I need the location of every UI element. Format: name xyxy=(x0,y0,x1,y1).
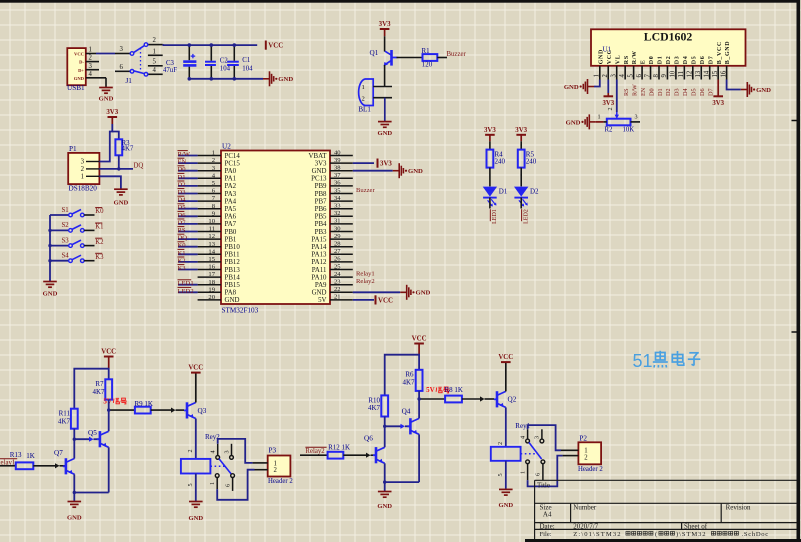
svg-text:35: 35 xyxy=(334,187,341,194)
svg-text:K2: K2 xyxy=(178,257,186,264)
svg-text:Buzzer: Buzzer xyxy=(447,51,467,58)
relay lever Rey2 xyxy=(219,459,231,474)
wire net K3 U2 pin 16 xyxy=(178,269,198,271)
svg-text:3V3: 3V3 xyxy=(712,100,724,107)
svg-text:PB10: PB10 xyxy=(225,244,241,251)
svg-text:K3: K3 xyxy=(95,254,104,261)
resistor R7 xyxy=(105,379,112,399)
svg-text:36: 36 xyxy=(334,180,341,187)
pin 12 LCD1602 D5 xyxy=(692,66,694,80)
wire LCD pin3 to R2 wiper xyxy=(616,80,618,113)
transistor Q1 PNP xyxy=(390,50,393,66)
pin 38 U2 GND xyxy=(330,170,353,172)
svg-text:PA10: PA10 xyxy=(311,274,327,281)
connector P3 xyxy=(268,456,291,477)
power port VCC Q2 xyxy=(501,361,511,363)
power port GND cap rail xyxy=(263,71,274,86)
svg-text:PA3: PA3 xyxy=(225,191,237,198)
svg-text:D7: D7 xyxy=(708,56,714,65)
svg-text:25: 25 xyxy=(334,263,341,270)
contact pin 4 Rey2 xyxy=(217,444,219,455)
pin 26 U2 PA12 xyxy=(330,261,353,263)
resistor R5 xyxy=(518,150,525,168)
pin 33 U2 PB6 xyxy=(330,208,353,210)
pin 1 R2 xyxy=(596,121,604,123)
svg-text:P2: P2 xyxy=(579,435,587,443)
wire net K2 U2 pin 15 xyxy=(178,261,198,263)
switch J1 upper lever xyxy=(130,52,134,56)
ground GND under Rey2 coil xyxy=(189,502,203,508)
svg-text:Buzzer: Buzzer xyxy=(356,187,375,194)
svg-text:3: 3 xyxy=(81,159,85,166)
pin 2 P2 xyxy=(563,455,579,457)
resistor R13 xyxy=(16,462,34,469)
wire R4 to D1 xyxy=(489,168,491,187)
LCD module U1 xyxy=(591,29,746,66)
svg-text:D0: D0 xyxy=(649,56,655,65)
pin 5 U2 PA2 xyxy=(198,185,221,187)
wire net D5 U2 pin 8 xyxy=(178,208,198,210)
svg-text:10: 10 xyxy=(670,70,677,77)
svg-text:PA12: PA12 xyxy=(311,259,327,266)
svg-text:D7: D7 xyxy=(178,219,187,226)
pin 25 U2 PA11 xyxy=(330,269,353,271)
svg-text:GND: GND xyxy=(564,84,579,91)
contact pin 4 Rey1 xyxy=(527,429,529,439)
svg-text:D6: D6 xyxy=(178,212,187,219)
pin 2 BL1 xyxy=(373,97,392,99)
wire net EN U2 pin 2 xyxy=(178,162,198,164)
svg-text:3: 3 xyxy=(611,74,618,78)
svg-text:D0: D0 xyxy=(648,88,655,96)
wire U2 pin21 to VCC xyxy=(353,299,374,301)
svg-text:3: 3 xyxy=(120,46,124,53)
svg-text:D-: D- xyxy=(79,60,84,65)
svg-text:EN: EN xyxy=(178,159,187,166)
svg-text:D3: D3 xyxy=(674,56,680,65)
svg-text:Revision: Revision xyxy=(726,504,751,512)
wire net RS U2 pin 11 xyxy=(178,231,198,233)
svg-text:PB4: PB4 xyxy=(315,221,327,228)
svg-text:13: 13 xyxy=(695,70,702,77)
svg-text:GND: GND xyxy=(377,503,392,510)
pin 18 U2 PB15 xyxy=(198,284,221,286)
wire net R/W U2 pin 1 xyxy=(178,155,198,157)
pin 10 LCD1602 D3 xyxy=(675,66,677,80)
svg-text:3V3: 3V3 xyxy=(315,160,327,167)
wire node to R9 xyxy=(109,409,135,411)
wire net D6 U2 pin 9 xyxy=(178,215,198,217)
svg-text:2: 2 xyxy=(497,442,504,445)
wire S2 to net label xyxy=(84,229,94,231)
svg-text:D1: D1 xyxy=(658,56,664,65)
svg-text:5: 5 xyxy=(627,74,634,78)
svg-text:PA9: PA9 xyxy=(315,282,327,289)
pin 34 U2 PB7 xyxy=(330,200,353,202)
svg-text:PA4: PA4 xyxy=(225,198,237,205)
pin 1 USB1 xyxy=(86,53,96,55)
svg-text:R9 1K: R9 1K xyxy=(135,400,153,408)
power port GND LCD left xyxy=(583,79,594,94)
pin 9 LCD1602 D2 xyxy=(666,66,668,80)
wire net D2 U2 pin 5 xyxy=(178,185,198,187)
svg-text:STM32F103: STM32F103 xyxy=(222,307,259,315)
power port GND LCD right xyxy=(741,82,752,97)
svg-text:R10: R10 xyxy=(368,396,380,404)
switch S1 xyxy=(50,214,69,216)
svg-text:B_VCC: B_VCC xyxy=(717,41,723,64)
svg-text:VCC: VCC xyxy=(498,354,513,361)
svg-text:4: 4 xyxy=(89,71,93,78)
power port 3V3 LCD pin15 xyxy=(713,95,723,97)
wire U2 pin22 to GND xyxy=(353,291,400,293)
pin 23 U2 PA9 xyxy=(330,284,353,286)
pin 35 U2 PB8 xyxy=(330,193,353,195)
svg-text:4: 4 xyxy=(210,450,217,453)
svg-text:VCC: VCC xyxy=(378,297,393,304)
svg-text:4K7: 4K7 xyxy=(368,404,381,412)
svg-text:3V3: 3V3 xyxy=(602,100,614,107)
pin 4 LCD1602 RS xyxy=(624,66,626,80)
svg-text:2: 2 xyxy=(274,467,278,474)
pin 13 LCD1602 D6 xyxy=(700,66,702,80)
svg-text:GND: GND xyxy=(408,168,423,175)
svg-text:47uF: 47uF xyxy=(163,67,177,74)
pin 2 LCD1602 VCC xyxy=(607,66,609,80)
svg-text:22: 22 xyxy=(334,286,341,293)
dotted link Rey1 coil to lever xyxy=(521,453,536,455)
svg-text:VCC: VCC xyxy=(188,365,203,372)
wire BL1 pin2 to ground xyxy=(384,98,386,122)
power port VCC block2 xyxy=(414,343,424,345)
svg-text:DQ: DQ xyxy=(178,235,188,242)
power port VCC block1 xyxy=(104,356,114,358)
ground GND block1 xyxy=(68,502,82,508)
pin 6 LCD1602 E xyxy=(641,66,643,80)
wire net D7 U2 pin 10 xyxy=(178,223,198,225)
svg-text:1: 1 xyxy=(519,471,526,474)
svg-text:LED2: LED2 xyxy=(178,288,194,295)
power port 3V3 R5 xyxy=(516,134,526,136)
wire S1 to net label xyxy=(84,214,94,216)
pin 31 U2 PB4 xyxy=(330,223,353,225)
svg-text:Title: Title xyxy=(537,482,550,490)
svg-text:33: 33 xyxy=(334,203,341,210)
switch J1 pole pin 6 xyxy=(115,70,130,72)
connector P1 DS18B20 xyxy=(68,153,99,184)
svg-text:)\STM32: )\STM32 xyxy=(676,531,706,538)
svg-text:1: 1 xyxy=(362,84,365,91)
pin 15 U2 PB12 xyxy=(198,261,221,263)
wire U2 pin38 to GND xyxy=(353,170,393,172)
sheet border top xyxy=(0,0,797,3)
svg-text:3V3: 3V3 xyxy=(380,161,392,168)
wire Q7 collector to R11 bottom xyxy=(73,429,75,459)
svg-text:R12 1K: R12 1K xyxy=(328,443,350,451)
svg-text:D1: D1 xyxy=(178,174,186,181)
svg-text:16: 16 xyxy=(208,264,215,271)
svg-text:D5: D5 xyxy=(691,88,698,96)
wire net D3 U2 pin 6 xyxy=(178,193,198,195)
pin 17 U2 PB14 xyxy=(198,276,221,278)
wire net DQ U2 pin 12 xyxy=(178,238,198,240)
resistor R8 xyxy=(445,396,462,403)
svg-text:K2: K2 xyxy=(95,239,104,246)
wire Q5 base from junction xyxy=(74,438,91,440)
wire relay coil to ground xyxy=(195,474,197,502)
svg-text:GND: GND xyxy=(416,290,431,297)
ground GND under keys xyxy=(43,282,57,288)
wire Relay2 to R12 xyxy=(300,454,328,456)
svg-text:GND: GND xyxy=(43,291,58,298)
svg-text:1: 1 xyxy=(153,48,156,55)
svg-text:D2: D2 xyxy=(665,88,672,96)
svg-text:BL1: BL1 xyxy=(358,106,371,114)
svg-text:GND: GND xyxy=(598,49,604,64)
svg-text:VCC: VCC xyxy=(268,43,283,50)
wire R8 to Q2 base xyxy=(462,398,482,400)
wire Q4 emitter down xyxy=(418,434,420,482)
sheet border zone tick right upper xyxy=(792,120,797,122)
contact pin 6 Rey1 xyxy=(542,464,544,480)
svg-text:2: 2 xyxy=(89,55,93,62)
pin 30 U2 PB3 xyxy=(330,231,353,233)
wire R3 bottom to DQ net xyxy=(118,155,120,169)
wire S3 to net label xyxy=(84,245,94,247)
svg-text:D6: D6 xyxy=(699,88,706,96)
pin 3 LCD1602 VL xyxy=(616,66,618,80)
svg-text:21: 21 xyxy=(334,294,341,301)
svg-text:K3: K3 xyxy=(178,265,187,272)
svg-text:S1: S1 xyxy=(62,207,69,214)
wire 3V3 down to pin3 junction xyxy=(111,117,113,124)
svg-text:3V3: 3V3 xyxy=(484,127,496,134)
svg-text:(: ( xyxy=(655,531,657,538)
svg-text:5: 5 xyxy=(153,58,157,65)
svg-text:26: 26 xyxy=(334,256,341,263)
wire rail to ground xyxy=(49,279,51,281)
svg-text:Q6: Q6 xyxy=(364,434,373,442)
pin 19 U2 PA8 xyxy=(198,291,221,293)
wire VCC stem block1 xyxy=(108,357,110,369)
pin 32 U2 PB5 xyxy=(330,215,353,217)
svg-text:VBAT: VBAT xyxy=(309,153,328,160)
svg-text:E: E xyxy=(641,60,647,65)
wire Q6 emitter down xyxy=(384,463,386,491)
wire Rey1 coil to ground xyxy=(505,461,507,489)
svg-text:5V: 5V xyxy=(103,397,112,405)
capacitor C2 xyxy=(205,61,216,63)
svg-text:P1: P1 xyxy=(69,145,77,153)
svg-text:2: 2 xyxy=(607,107,614,110)
svg-text:15: 15 xyxy=(208,256,215,263)
svg-text:DQ: DQ xyxy=(134,162,144,169)
svg-text:4: 4 xyxy=(153,67,157,74)
svg-text:LED1: LED1 xyxy=(492,209,498,224)
wire net K1 U2 pin 14 xyxy=(178,253,198,255)
svg-text:4K7: 4K7 xyxy=(402,378,415,386)
svg-text:.SchDoc: .SchDoc xyxy=(742,531,769,538)
wire R12 to Q6 base xyxy=(343,454,368,456)
svg-text:27: 27 xyxy=(334,248,341,255)
resistor R3 xyxy=(115,139,122,155)
wire net LED2 U2 pin 19 xyxy=(178,291,198,293)
svg-text:C3: C3 xyxy=(166,60,175,67)
svg-text:U2: U2 xyxy=(222,142,231,150)
svg-text:30: 30 xyxy=(334,225,341,232)
svg-text:4K7: 4K7 xyxy=(92,388,105,396)
svg-text:1: 1 xyxy=(212,150,215,157)
wire Q1 base to R1 xyxy=(397,57,423,59)
pin 5 LCD1602 R/W xyxy=(633,66,635,80)
svg-text:32: 32 xyxy=(334,210,341,217)
svg-text:3V3: 3V3 xyxy=(379,21,391,28)
svg-text:13: 13 xyxy=(208,241,215,248)
svg-text:PB15: PB15 xyxy=(225,282,241,289)
svg-text:J1: J1 xyxy=(126,77,133,85)
capacitor C1 pin top xyxy=(233,45,235,61)
buzzer BL1 xyxy=(359,79,374,106)
wire D2 to net label xyxy=(520,198,522,209)
wire USB1 pin4 to ground xyxy=(105,78,107,88)
svg-text:2020/7/7: 2020/7/7 xyxy=(573,522,598,530)
ground GND under USB1 xyxy=(99,88,113,94)
svg-text:D3: D3 xyxy=(674,88,681,96)
svg-text:R7: R7 xyxy=(95,380,104,388)
svg-text:2: 2 xyxy=(81,166,85,173)
svg-text:PA0: PA0 xyxy=(225,168,237,175)
svg-text:Q3: Q3 xyxy=(198,407,207,415)
wire emitter rail block1 xyxy=(74,492,108,494)
wire Q3 collector to VCC xyxy=(195,373,197,403)
svg-text:Header 2: Header 2 xyxy=(578,466,603,473)
dotted link Rey2 coil to lever xyxy=(210,465,227,467)
wire Q2 emitter to relay coil xyxy=(505,407,507,446)
svg-text:VL: VL xyxy=(615,55,621,65)
svg-text:R2: R2 xyxy=(605,127,614,134)
svg-text:PB9: PB9 xyxy=(315,183,327,190)
svg-text:6: 6 xyxy=(535,473,542,476)
wire switch common rail xyxy=(49,215,51,279)
svg-text:D4: D4 xyxy=(683,56,689,65)
svg-text:R/W: R/W xyxy=(178,151,191,158)
svg-text:5V: 5V xyxy=(318,297,326,304)
wire LCD pin2 to 3V3 xyxy=(607,80,609,94)
svg-text:120: 120 xyxy=(422,62,433,69)
svg-text:8: 8 xyxy=(653,74,660,78)
pin 29 U2 PA15 xyxy=(330,238,353,240)
pin 11 U2 PB0 xyxy=(198,231,221,233)
svg-text:PA15: PA15 xyxy=(311,236,327,243)
svg-text:GND: GND xyxy=(67,514,82,521)
wire Q7 emitter down xyxy=(73,474,75,501)
wire R3 top jog xyxy=(112,132,119,140)
svg-text:GND: GND xyxy=(566,119,581,126)
switch S2 xyxy=(50,229,69,231)
pin 4 U2 PA1 xyxy=(198,177,221,179)
svg-text:2: 2 xyxy=(584,454,588,461)
svg-text:D0: D0 xyxy=(178,166,187,173)
svg-text:2: 2 xyxy=(362,95,365,102)
pin 7 LCD1602 D0 xyxy=(650,66,652,80)
capacitor C3 pin top xyxy=(188,45,190,60)
svg-text:C2: C2 xyxy=(220,58,229,65)
svg-text:PB0: PB0 xyxy=(225,229,237,236)
pin 40 U2 VBAT xyxy=(330,155,353,157)
wire top rail block1 xyxy=(74,369,108,409)
svg-text:2: 2 xyxy=(153,37,157,44)
wire R5 to D2 xyxy=(520,168,522,187)
svg-text:P3: P3 xyxy=(269,447,277,455)
pin 36 U2 PB9 xyxy=(330,185,353,187)
power port 3V3 R4 xyxy=(485,134,495,136)
wire emitter rail block2 xyxy=(385,481,419,483)
pin 11 LCD1602 D4 xyxy=(683,66,685,80)
svg-text:20: 20 xyxy=(208,294,215,301)
svg-text:EN: EN xyxy=(640,87,647,96)
svg-text:VCC: VCC xyxy=(74,52,84,57)
switch J1 lower lever xyxy=(130,70,134,74)
svg-text:34: 34 xyxy=(334,195,341,202)
svg-text:S2: S2 xyxy=(62,222,70,229)
connector P2 xyxy=(578,442,601,464)
svg-text:Q4: Q4 xyxy=(402,408,411,416)
wire Q5 collector up to node xyxy=(108,410,110,431)
wire Relay1 to R13 xyxy=(0,465,16,467)
wire P1 pin1 to ground xyxy=(99,176,121,189)
wire top rail block2 xyxy=(385,355,419,396)
ground GND under BL1 xyxy=(378,122,392,128)
wiper arrow R2 xyxy=(616,112,618,118)
wire net K0 U2 pin 13 xyxy=(178,246,198,248)
svg-text:RS: RS xyxy=(178,227,186,234)
svg-text:PA1: PA1 xyxy=(225,176,237,183)
svg-text:GND: GND xyxy=(74,76,85,81)
transistor Q2 xyxy=(494,398,497,400)
power port GND U2 pin38 xyxy=(393,163,404,178)
svg-text:PA14: PA14 xyxy=(311,244,327,251)
svg-text:PA11: PA11 xyxy=(312,267,327,274)
svg-text:104: 104 xyxy=(220,66,231,73)
transistor Q7 xyxy=(63,465,66,467)
svg-text:3: 3 xyxy=(89,63,93,70)
wire Q2 collector to VCC xyxy=(505,362,507,391)
wire U2 pin39 to 3V3 xyxy=(353,162,374,164)
wire Q3 emitter to relay coil xyxy=(195,419,197,459)
pin 20 U2 GND xyxy=(198,299,221,301)
svg-text:PB3: PB3 xyxy=(315,229,327,236)
svg-text:LED1: LED1 xyxy=(178,280,194,287)
wire net LED1 U2 pin 18 xyxy=(178,284,198,286)
svg-text:5: 5 xyxy=(497,473,504,476)
wire LCD pin16 to GND right xyxy=(727,80,741,90)
svg-text:R1: R1 xyxy=(422,48,431,55)
junction dots cap rails xyxy=(188,43,192,47)
svg-text:PC13: PC13 xyxy=(311,176,327,183)
wire R7 bottom to node xyxy=(108,400,110,411)
power port VCC U2 pin21 xyxy=(375,295,377,304)
svg-text:Q1: Q1 xyxy=(370,49,379,57)
svg-text:Z:\01\STM32: Z:\01\STM32 xyxy=(573,531,621,538)
svg-text:D2: D2 xyxy=(530,188,539,196)
pin 12 U2 PB1 xyxy=(198,238,221,240)
svg-text:2: 2 xyxy=(212,157,215,164)
wire Q4 collector up to node xyxy=(418,399,420,418)
pin 1 P3 xyxy=(253,462,268,464)
svg-text:4K7: 4K7 xyxy=(58,417,71,425)
svg-text:K1: K1 xyxy=(95,224,103,231)
svg-text:51: 51 xyxy=(633,351,653,371)
